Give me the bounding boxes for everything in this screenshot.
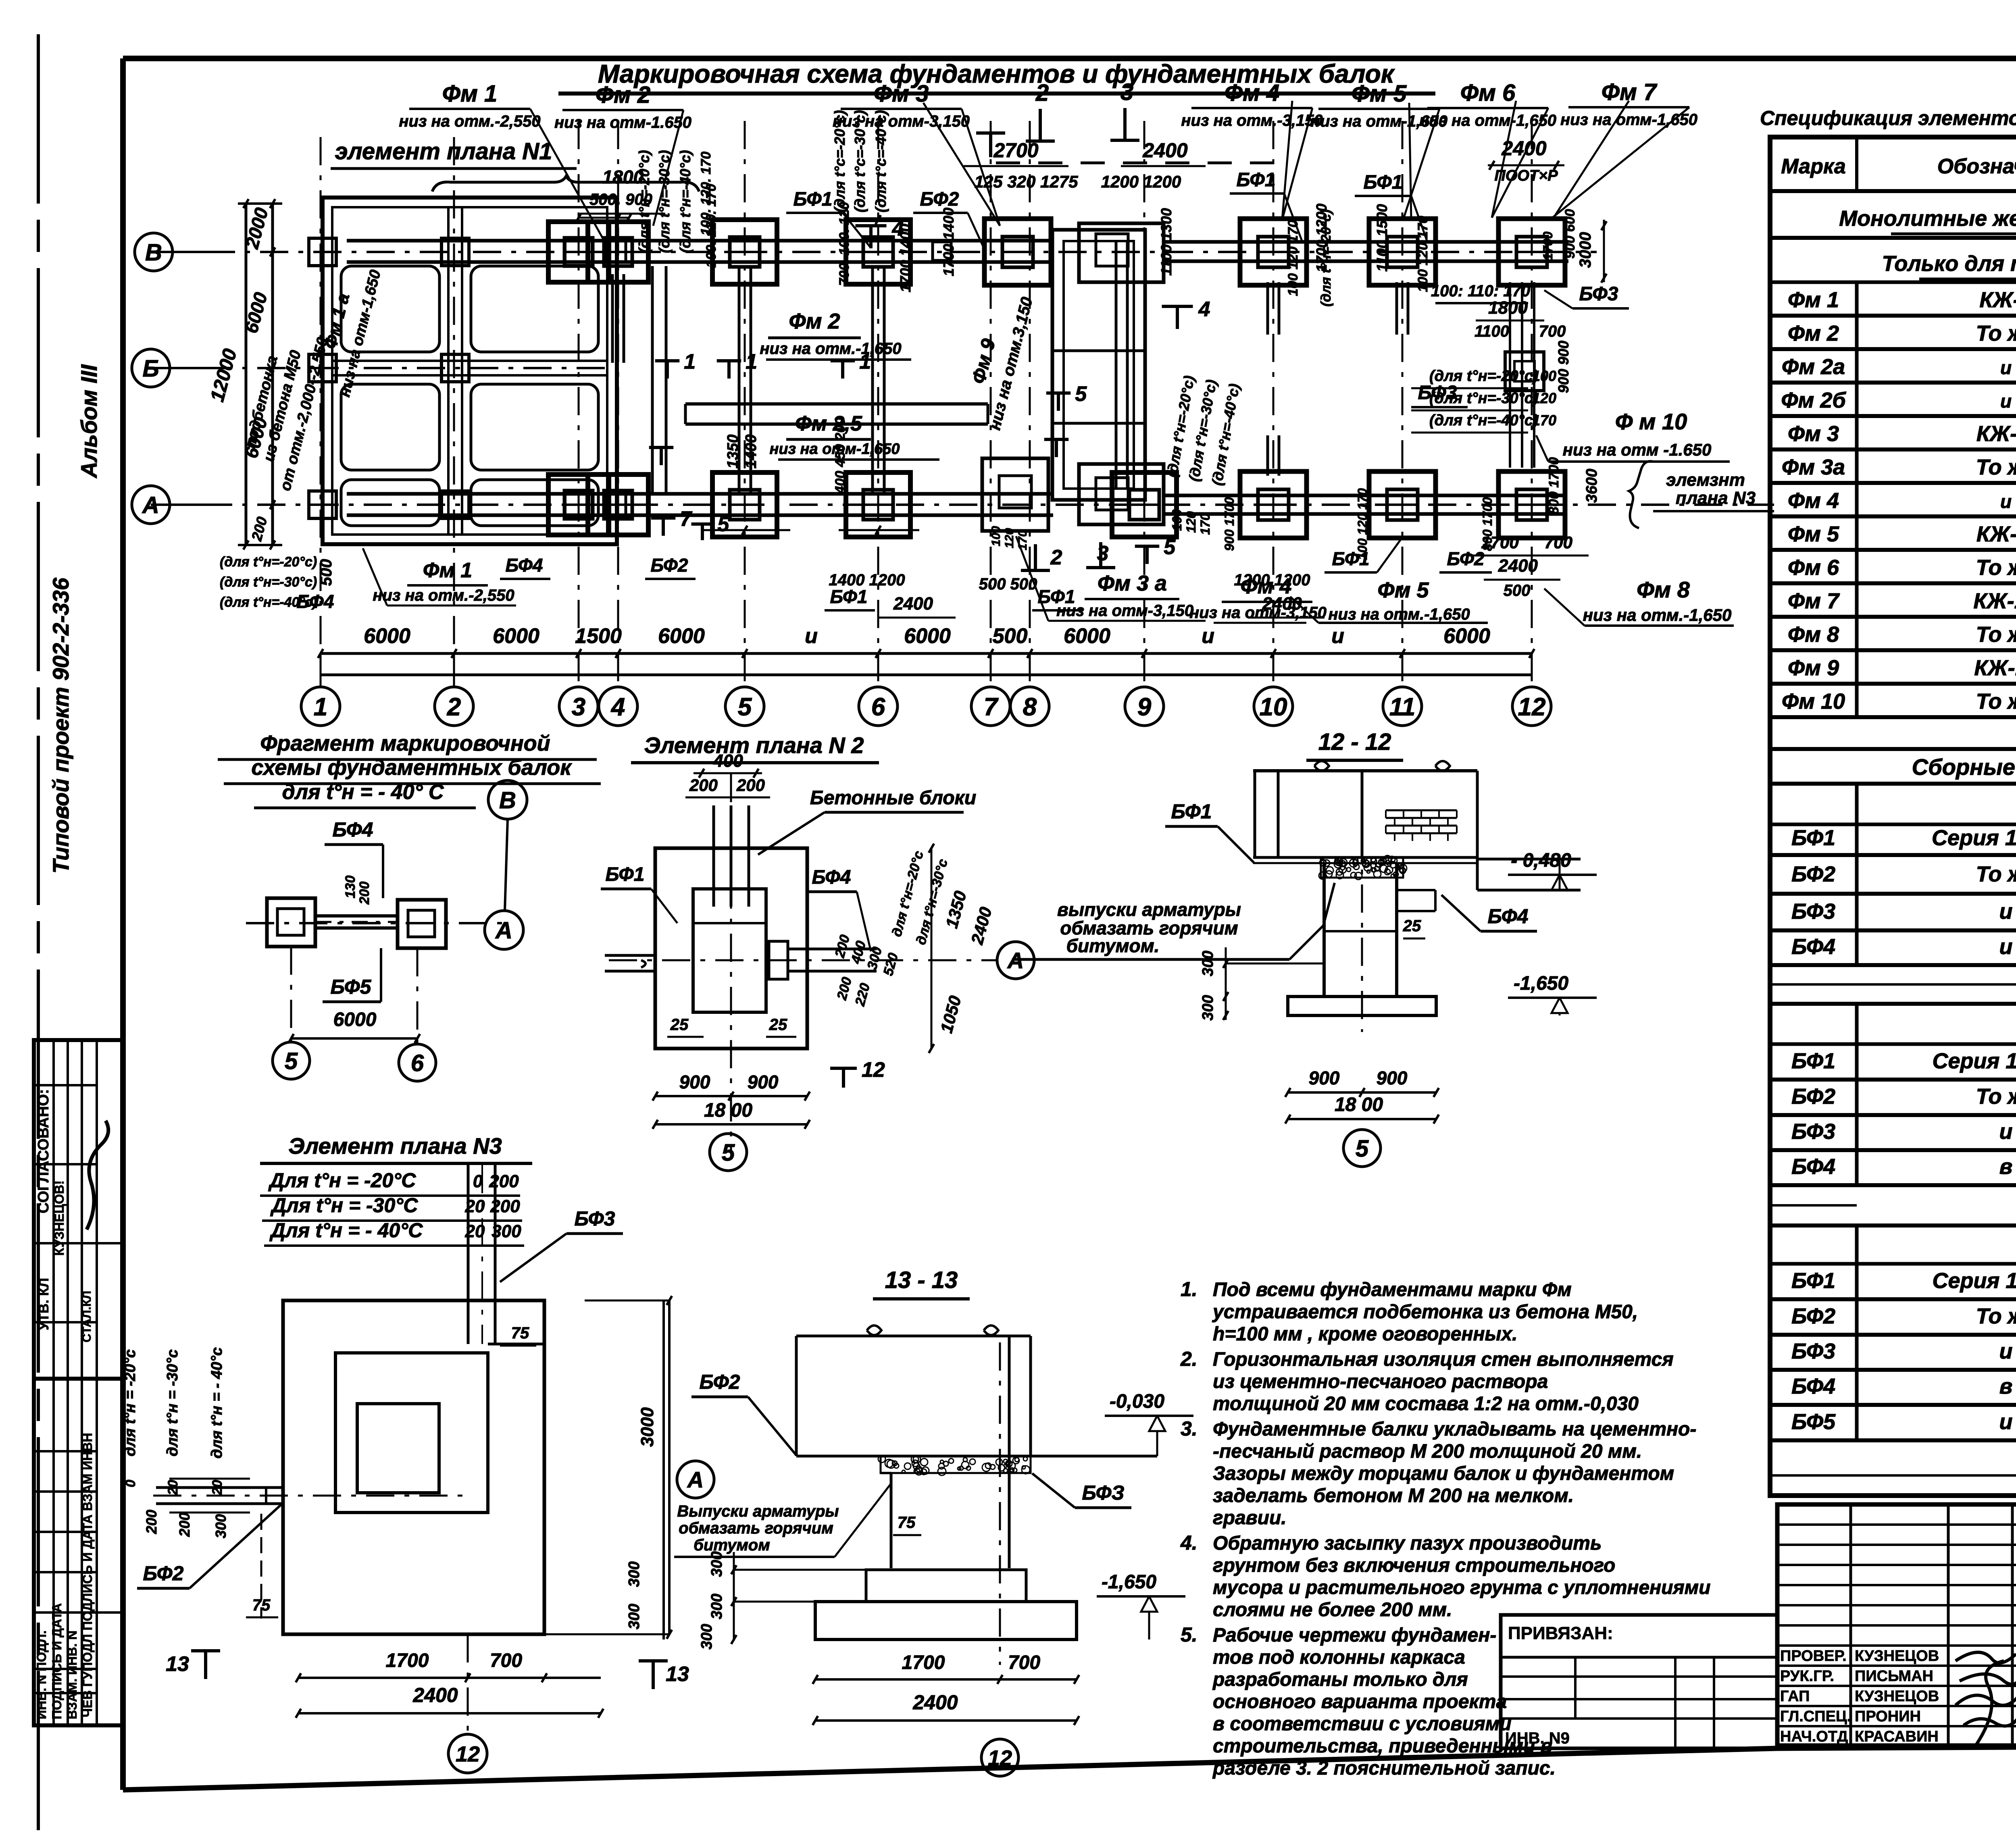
title block col b (1947, 1504, 1950, 1746)
svg-text:В: В (145, 239, 162, 266)
svg-text:7: 7 (984, 693, 999, 721)
svg-text:ПОДПИСЬ И ДАТА: ПОДПИСЬ И ДАТА (50, 1603, 64, 1719)
svg-text:170: 170 (1532, 412, 1556, 429)
spec empty rows -30 (1770, 1204, 1857, 1207)
svg-text:400 450 200: 400 450 200 (833, 417, 848, 494)
spec header row line (1770, 189, 2016, 193)
svg-text:схемы фундаментных балок: схемы фундаментных балок (251, 755, 572, 780)
axis line V (154, 251, 1597, 253)
svg-text:БФ2: БФ2 (1447, 548, 1485, 569)
svg-text:и: и (1202, 624, 1214, 648)
svg-text:(для t°н=-30°с): (для t°н=-30°с) (220, 574, 317, 590)
svg-text:в: в (1999, 1374, 2013, 1398)
axis circle 5 (725, 687, 764, 726)
drawing frame bottom (123, 1744, 2016, 1790)
svg-text:Типовой проект 902-2-336: Типовой проект 902-2-336 (48, 577, 73, 874)
svg-text:800 1700: 800 1700 (1480, 497, 1495, 551)
beam vertical 5 (738, 266, 741, 494)
svg-text:5.: 5. (1181, 1623, 1198, 1646)
sec13 left big dim (662, 1300, 665, 1640)
svg-text:1: 1 (684, 350, 696, 373)
plan N1 tank cells (341, 266, 439, 352)
fragment circle 5 (273, 1042, 310, 1079)
axis circle 1 (301, 687, 340, 726)
svg-text:Б: Б (142, 356, 159, 382)
dim row above V2 (847, 219, 911, 221)
svg-text:13: 13 (666, 1662, 689, 1686)
svg-text:слоями не более 200 мм.: слоями не более 200 мм. (1213, 1599, 1452, 1621)
spec row Фм 10 (1855, 684, 1859, 717)
svg-text:100: 100 (989, 526, 1003, 546)
spec row Фм 3 (1855, 416, 1859, 449)
svg-text:1700 1400: 1700 1400 (897, 224, 914, 292)
svg-text:(для t°н=-30°с): (для t°н=-30°с) (1429, 390, 1538, 407)
svg-text:для t°н = -30°с: для t°н = -30°с (164, 1349, 181, 1456)
svg-text:СТАЛ.КЛ: СТАЛ.КЛ (80, 1291, 94, 1342)
svg-text:Ф м 10: Ф м 10 (1615, 409, 1687, 434)
footing axis 3158/A (1240, 472, 1307, 538)
svg-text:700. 100. 120: 700. 100. 120 (837, 202, 852, 286)
plan N3 axis A line (153, 1495, 468, 1497)
svg-text:Фрагмент маркировочной: Фрагмент маркировочной (260, 731, 550, 755)
svg-text:элемент плана N1: элемент плана N1 (335, 138, 552, 164)
cut mark T1 c (831, 359, 855, 362)
svg-text:(для t°н=-20°с): (для t°н=-20°с) (1429, 368, 1538, 385)
fragment circle A2 (485, 911, 523, 949)
svg-text:2: 2 (447, 693, 461, 721)
svg-text:2400: 2400 (912, 1691, 958, 1714)
svg-text:100: 100 (1532, 368, 1556, 384)
svg-text:То же: То же (1976, 622, 2016, 647)
spec bf30 header line (1770, 1042, 2016, 1046)
svg-text:2400: 2400 (412, 1684, 458, 1706)
svg-text:5: 5 (722, 1140, 735, 1166)
svg-text:БФ1: БФ1 (1791, 1049, 1835, 1073)
svg-text:100 120 170: 100 120 170 (1415, 216, 1431, 292)
cut mark T5 bottom (1135, 545, 1160, 548)
svg-text:25: 25 (670, 1016, 689, 1034)
svg-text:ПРИВЯЗАН:: ПРИВЯЗАН: (1508, 1623, 1613, 1643)
sec13 floor line (796, 1455, 1157, 1458)
svg-text:КЖ- 8: КЖ- 8 (1976, 422, 2016, 446)
sec12 top slab (1253, 769, 1477, 772)
svg-text:12 - 12: 12 - 12 (1318, 729, 1391, 755)
svg-text:18 00: 18 00 (1335, 1094, 1383, 1115)
sec13 footing (815, 1602, 1077, 1640)
svg-text:в: в (1999, 1155, 2013, 1179)
svg-text:5: 5 (738, 693, 752, 721)
svg-text:БФ4: БФ4 (333, 818, 373, 841)
svg-text:1200 1200: 1200 1200 (1101, 172, 1181, 191)
svg-text:700: 700 (490, 1650, 522, 1671)
svg-text:БФ2: БФ2 (1791, 862, 1835, 886)
svg-text:Фм 1: Фм 1 (1788, 288, 1839, 312)
svg-text:БФ1: БФ1 (1237, 169, 1276, 191)
plan N2 T12 mark (830, 1067, 857, 1070)
title block names (1777, 1644, 2016, 1647)
plan N1 wall footings (442, 238, 469, 266)
spec bf section -30 (1855, 1044, 1859, 1080)
column axis lines 1-12 (320, 137, 322, 687)
svg-text:тов под колонны каркаса: тов под колонны каркаса (1213, 1647, 1465, 1668)
plan N1 mid wall B (332, 360, 607, 362)
spec bf40 header line (1770, 1262, 2016, 1266)
svg-text:низ на отм.-1,650: низ на отм.-1,650 (760, 340, 901, 358)
svg-text:1: 1 (746, 350, 757, 373)
plan N1 brace (432, 176, 699, 191)
svg-text:КЖ- 9: КЖ- 9 (1976, 522, 2016, 546)
plan N3 T13 right (652, 1661, 655, 1689)
svg-text:КРАСАВИН: КРАСАВИН (1855, 1728, 1939, 1745)
svg-text:5: 5 (1164, 535, 1176, 559)
svg-text:6000: 6000 (658, 624, 705, 648)
svg-text:Фм 6: Фм 6 (1460, 80, 1516, 106)
svg-text:БФ1: БФ1 (793, 189, 833, 210)
axis circle B (132, 349, 170, 387)
svg-text:БФ4: БФ4 (1791, 1374, 1835, 1398)
svg-text:Для t°н = -20°С: Для t°н = -20°С (268, 1169, 417, 1192)
svg-text:Элемент плана N 2: Элемент плана N 2 (644, 732, 864, 758)
svg-text:100: 110: 170: 100: 110: 170 (1431, 282, 1530, 300)
plan N3 column strip (467, 1165, 470, 1344)
plan N1 inner wall (332, 207, 607, 535)
svg-text:и: и (1999, 899, 2013, 924)
svg-text:12: 12 (988, 1746, 1012, 1770)
svg-text:-1,650: -1,650 (1514, 973, 1568, 994)
main title underline (558, 92, 1435, 96)
title block col c (2011, 1504, 2014, 1746)
svg-text:900: 900 (679, 1072, 710, 1092)
cut mark 3 bottom (1099, 542, 1102, 568)
sec12 pedestal (1322, 863, 1326, 997)
svg-text:Сборные жел. бет. конструкции.: Сборные жел. бет. конструкции. (1912, 754, 2016, 780)
svg-text:Только для температуры t°н = -: Только для температуры t°н = -30°С (1882, 252, 2016, 276)
sec12 squiggle marks (1314, 761, 1450, 771)
svg-text:ПРОНИН: ПРОНИН (1855, 1708, 1921, 1725)
svg-text:8: 8 (1023, 693, 1037, 721)
svg-text:5: 5 (1356, 1136, 1369, 1162)
svg-text:В: В (499, 787, 516, 814)
plan N2 pedestal (693, 889, 766, 1012)
spec empty rows -20 (1770, 983, 2016, 986)
svg-text:Рабочие чертежи фундамен-: Рабочие чертежи фундамен- (1213, 1625, 1496, 1646)
sidebar stamp table B (34, 1379, 123, 1725)
sidebar stamp table A (34, 1040, 123, 1379)
cut mark T1 b (717, 359, 741, 362)
axis line B (151, 367, 617, 369)
svg-text:3: 3 (1097, 542, 1109, 565)
spec row Фм 2б (1855, 383, 1859, 416)
svg-text:12: 12 (456, 1742, 480, 1766)
svg-text:4.: 4. (1180, 1531, 1198, 1554)
sec12 right ledge (1477, 858, 1581, 861)
svg-text:Фм 2б: Фм 2б (1781, 388, 1846, 412)
svg-text:Монолитные жел. бет. конструкц: Монолитные жел. бет. конструкции (1839, 206, 2016, 231)
sec12 walls (1254, 771, 1256, 857)
cut mark T5 bottom2 (691, 522, 714, 526)
axis circle 3 (559, 687, 598, 726)
svg-text:5: 5 (1075, 382, 1087, 406)
svg-text:БФ2: БФ2 (651, 555, 688, 576)
svg-text:РУК.ГР.: РУК.ГР. (1780, 1668, 1834, 1685)
axis line A (151, 504, 1774, 506)
scan edge line (37, 34, 40, 1830)
plan1 left dim chain (271, 204, 274, 545)
dim ticks axisA row (702, 529, 790, 531)
svg-text:(для t°с=-30°с): (для t°с=-30°с) (852, 110, 868, 212)
svg-text:130: 130 (343, 876, 358, 899)
svg-text:Бетонные блоки: Бетонные блоки (810, 787, 976, 809)
title block col a (1849, 1504, 1852, 1746)
svg-text:и: и (1999, 1119, 2013, 1144)
svg-text:2400: 2400 (1262, 594, 1302, 614)
svg-text:100. 120. 170: 100. 120. 170 (704, 184, 719, 268)
svg-text:Серия 1.415-1: Серия 1.415-1 (1933, 1269, 2016, 1293)
plan N2 column strip (712, 805, 715, 907)
svg-text:500: 500 (993, 624, 1028, 648)
spec row Фм 2а (1855, 349, 1859, 383)
svg-text:БФ2: БФ2 (1791, 1084, 1835, 1109)
plan N2 axis vertical (730, 774, 732, 1153)
svg-text:для t°н = - 40° С: для t°н = - 40° С (282, 780, 444, 804)
svg-text:БФ1: БФ1 (1038, 586, 1075, 607)
svg-text:Фм 6: Фм 6 (1788, 556, 1839, 580)
svg-text:900: 900 (1309, 1067, 1340, 1088)
svg-text:для t°н = -20°с: для t°н = -20°с (122, 1349, 139, 1456)
spec row Фм 8 (1855, 617, 1859, 650)
svg-text:-песчаный раствор М 200 толщ: -песчаный раствор М 200 толщиной 20 мм. (1213, 1441, 1642, 1462)
footing axis 2838/A (1112, 472, 1177, 537)
plan N2 outer square (655, 848, 807, 1049)
svg-text:и: и (1999, 1410, 2013, 1434)
svg-text:170: 170 (1016, 530, 1029, 550)
svg-text:-0,030: -0,030 (1110, 1391, 1164, 1412)
svg-text:20: 20 (210, 1480, 225, 1496)
privyazan lines (1501, 1656, 1777, 1659)
sec12 floor lines (1253, 856, 1477, 859)
privyazan box (1501, 1615, 1777, 1748)
sec12 concrete speckle (1321, 857, 1403, 878)
bottom axis line (321, 674, 1532, 676)
svg-text:(для t°н=-40°с): (для t°н=-40°с) (1429, 412, 1538, 429)
spec fm header line (1770, 281, 2016, 284)
svg-text:20: 20 (165, 1480, 181, 1496)
svg-text:500: 500 (317, 559, 335, 586)
middle building bottom footing 8 (1079, 464, 1164, 524)
leader extra 4 (1409, 103, 1411, 220)
plan N3 dimline left (169, 1478, 250, 1480)
svg-text:6000: 6000 (364, 624, 410, 648)
svg-text:6: 6 (871, 693, 885, 721)
svg-text:ИНВ. N ПОДЛ.: ИНВ. N ПОДЛ. (34, 1630, 49, 1719)
bf3 small footing (1505, 352, 1544, 391)
leader extra 2 (923, 103, 1000, 226)
svg-text:КЖ-10: КЖ-10 (1973, 589, 2016, 613)
axis circle 4 (599, 687, 637, 726)
svg-text:12: 12 (862, 1058, 885, 1082)
svg-text:для t°н = - 40°с: для t°н = - 40°с (208, 1347, 225, 1458)
spec row Фм 7 (1855, 583, 1859, 617)
sec12 footing (1288, 997, 1436, 1015)
svg-text:1: 1 (314, 693, 327, 721)
svg-text:900 900: 900 900 (1555, 341, 1572, 393)
svg-text:грунтом без включения с: грунтом без включения строительного (1213, 1555, 1615, 1576)
axis circle 9 (1125, 687, 1164, 726)
svg-text:3000: 3000 (637, 1407, 657, 1447)
axis circle 6 (859, 687, 898, 726)
svg-text:300: 300 (708, 1594, 725, 1619)
svg-text:12: 12 (1518, 693, 1546, 721)
svg-text:основного варианта проекта: основного варианта проекта (1213, 1691, 1507, 1712)
svg-text:БФЗ: БФЗ (1082, 1481, 1124, 1504)
svg-text:Фм 2а: Фм 2а (1782, 355, 1845, 379)
svg-text:6000: 6000 (333, 1009, 377, 1030)
sec13 step (866, 1570, 1026, 1602)
svg-text:700: 700 (1539, 322, 1566, 340)
axis circle 2 (435, 687, 473, 726)
svg-text:2400: 2400 (1498, 556, 1538, 576)
svg-text:800 1700: 800 1700 (1546, 457, 1562, 514)
svg-text:3000: 3000 (1577, 232, 1594, 268)
svg-text:3: 3 (572, 693, 585, 721)
svg-text:БФ1: БФ1 (1171, 800, 1212, 823)
svg-text:6000: 6000 (1443, 624, 1490, 648)
svg-text:разделе 3. 2 пояснительной за: разделе 3. 2 пояснительной запис. (1212, 1758, 1556, 1779)
axis circle A (132, 486, 170, 524)
svg-text:3.: 3. (1181, 1417, 1198, 1440)
svg-text:ПРОВЕР.: ПРОВЕР. (1780, 1648, 1847, 1664)
svg-text:Фм 9: Фм 9 (1788, 656, 1839, 680)
svg-text:То же: То же (1976, 862, 2016, 886)
svg-text:Фм 8: Фм 8 (1637, 577, 1690, 602)
plan N3 axis vert (467, 1634, 469, 1734)
svg-text:БФ3: БФ3 (1579, 283, 1618, 305)
svg-text:заделать бетоном М 20: заделать бетоном М 200 на мелком. (1213, 1485, 1574, 1506)
axis circle 10 (1254, 687, 1293, 726)
svg-text:(для t°н=-40°с): (для t°н=-40°с) (220, 595, 317, 610)
svg-text:900: 900 (748, 1072, 779, 1092)
middle building partition (1052, 350, 1145, 352)
cut mark T5 mid (1046, 391, 1071, 395)
svg-text:и: и (1999, 1339, 2013, 1363)
axis circle 11 (1383, 687, 1422, 726)
middle building bottom footing 7 (982, 458, 1048, 531)
svg-text:1400 1200: 1400 1200 (829, 571, 905, 589)
svg-text:БФ1: БФ1 (830, 586, 868, 607)
svg-text:БФ5: БФ5 (331, 976, 372, 998)
svg-text:700: 700 (1544, 533, 1572, 552)
svg-text:500 500: 500 500 (979, 575, 1037, 593)
spec row dlya-20 (1770, 782, 2016, 786)
svg-text:БФ3: БФ3 (575, 1207, 615, 1230)
svg-text:2400: 2400 (1142, 139, 1187, 162)
svg-text:То же: То же (1976, 1304, 2016, 1328)
footing axis 3478/A (1369, 472, 1436, 538)
svg-text:700: 700 (1008, 1652, 1040, 1673)
svg-text:(для t°с=-40°с): (для t°с=-40°с) (873, 110, 889, 212)
leader extra 3 (1282, 101, 1292, 220)
small sq detail b (933, 242, 951, 260)
svg-text:Фм 5: Фм 5 (1788, 522, 1839, 546)
footing axis 3478/V (1369, 219, 1436, 285)
spec row Фм 4 (1855, 483, 1859, 516)
footing axis 2178/A (846, 472, 910, 537)
plan N3 outer square (283, 1300, 544, 1634)
svg-text:1800: 1800 (1488, 298, 1528, 318)
svg-text:низ на отм-1,650: низ на отм-1,650 (1419, 112, 1556, 129)
middle building top footing 7 (985, 219, 1051, 285)
spec bf section -20 (1855, 824, 1859, 855)
svg-text:То же: То же (1976, 689, 2016, 714)
svg-text:100 120 170: 100 120 170 (1285, 220, 1301, 296)
svg-text:Спецификация элементов к марки: Спецификация элементов к маркировочной с… (1760, 107, 2016, 129)
sidebar lower extra lines (34, 1490, 97, 1493)
svg-text:низ на отм.-1,650: низ на отм.-1,650 (1328, 605, 1470, 623)
svg-text:А: А (495, 918, 512, 944)
svg-text:100 120 170: 100 120 170 (1355, 488, 1370, 560)
svg-text:6: 6 (411, 1050, 424, 1076)
svg-text:толщиной 20 мм состава 1:2: толщиной 20 мм состава 1:2 на отм.-0,030 (1213, 1393, 1639, 1415)
svg-text:300: 300 (698, 1624, 715, 1649)
svg-text:500: 500 (1504, 582, 1531, 599)
sec13 squiggles (867, 1325, 998, 1335)
spec header col lines (1855, 137, 1858, 191)
svg-text:1400: 1400 (743, 435, 760, 469)
title block signatures (1956, 1652, 2016, 1746)
svg-text:2: 2 (1050, 546, 1062, 569)
svg-text:-1,650: -1,650 (1102, 1571, 1156, 1593)
svg-text:элемзнт: элемзнт (1666, 470, 1745, 490)
svg-text:БФ1: БФ1 (1791, 1269, 1835, 1293)
svg-text:(для t°с=-20°с): (для t°с=-20°с) (831, 110, 848, 212)
plan N2 dim lines right (931, 848, 933, 1049)
svg-text:ГЛ.СПЕЦ.: ГЛ.СПЕЦ. (1780, 1708, 1851, 1725)
sec13 pedestal (890, 1473, 893, 1568)
svg-text:300: 300 (626, 1561, 643, 1587)
svg-text:низ на отм.-2,550: низ на отм.-2,550 (373, 587, 514, 604)
axis circle 7 (971, 687, 1010, 726)
svg-text:Фундаментные балки укладыват: Фундаментные балки укладывать на цементн… (1213, 1419, 1696, 1440)
svg-text:Выпуски арматуры: Выпуски арматуры (677, 1502, 839, 1520)
beam line A (347, 492, 1053, 496)
cut mark 2 (1039, 109, 1042, 141)
footing axis 1533/V (588, 222, 648, 282)
svg-text:То же: То же (1976, 455, 2016, 479)
beam line V (347, 239, 1052, 243)
svg-text:300: 300 (1200, 995, 1216, 1020)
svg-text:900: 900 (1377, 1067, 1408, 1088)
svg-text:гравии.: гравии. (1213, 1507, 1287, 1529)
plan N2 circle 5 (710, 1134, 747, 1171)
plan N2 axis circle A (997, 942, 1034, 979)
svg-text:БФ4: БФ4 (506, 555, 543, 576)
svg-text:КЖ-11: КЖ-11 (1974, 656, 2016, 680)
sidebar signature (87, 1121, 108, 1230)
cut mark T4 right (1162, 305, 1193, 308)
svg-text:120: 120 (1532, 390, 1556, 406)
fragment axis verticals (290, 947, 292, 1048)
svg-text:БФ1: БФ1 (1791, 826, 1835, 850)
axis circle 8 (1010, 687, 1049, 726)
svg-text:25: 25 (769, 1016, 787, 1034)
svg-text:25: 25 (1403, 917, 1421, 935)
beam vertical stub 11 (1395, 282, 1398, 335)
spec row Фм 3а (1855, 449, 1859, 483)
svg-text:битумом: битумом (694, 1536, 770, 1554)
svg-text:БФ1: БФ1 (1364, 172, 1403, 193)
svg-text:БФ3: БФ3 (1791, 1339, 1835, 1363)
svg-text:75: 75 (511, 1324, 529, 1342)
